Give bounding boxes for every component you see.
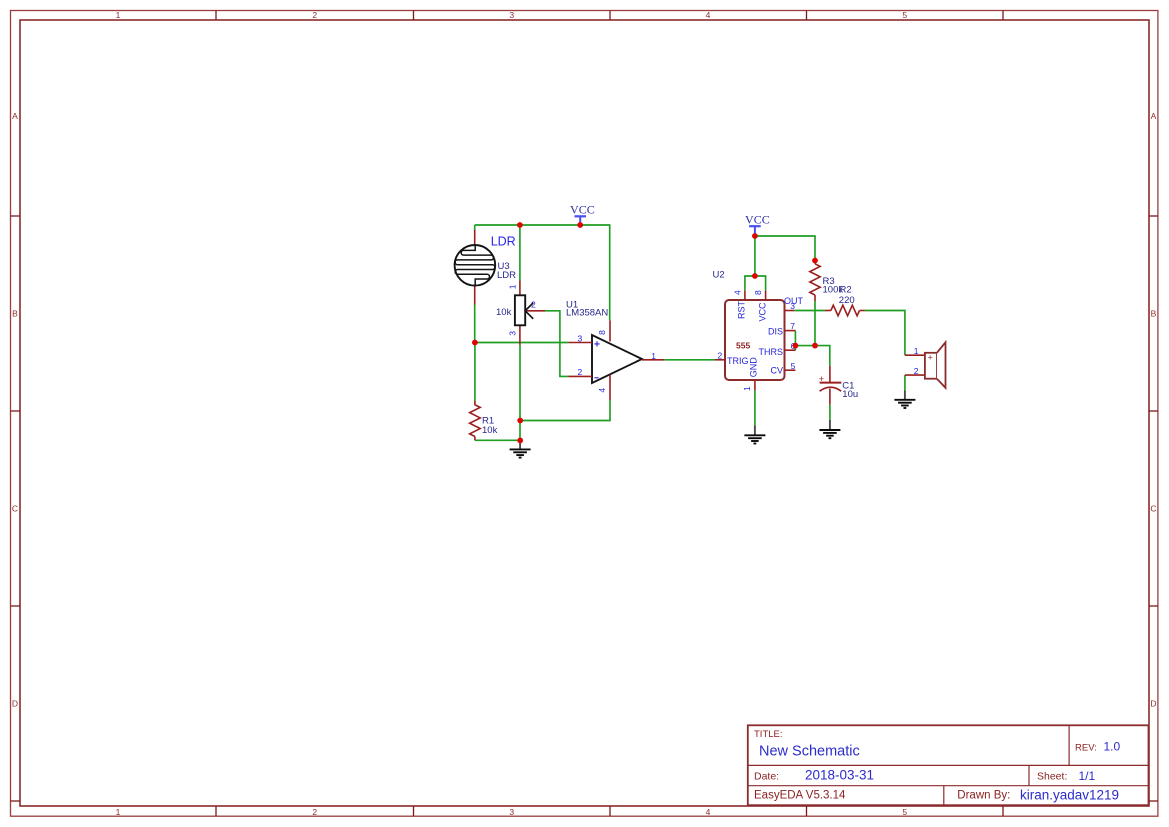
op-amp U1 triangle: [592, 335, 642, 383]
frame ruler ticks top: [216, 11, 1003, 21]
VCC flag 1 stem: [579, 216, 581, 225]
svg-text:VCC: VCC: [570, 202, 595, 216]
svg-text:1.0: 1.0: [1104, 740, 1121, 754]
svg-text:4: 4: [706, 807, 711, 817]
svg-text:B: B: [12, 309, 18, 319]
wire junction A down to R1: [474, 343, 476, 402]
frame ruler letters left: [12, 111, 18, 709]
op-amp U1 pin4: [609, 375, 611, 401]
wire pot top branch: [519, 225, 521, 281]
svg-text:LDR: LDR: [497, 270, 516, 281]
VCC flag 2 bar: [749, 225, 761, 227]
svg-text:TITLE:: TITLE:: [754, 729, 783, 740]
junction dot 555 top: [752, 273, 758, 279]
resistor R2 right stub: [860, 310, 865, 312]
op-amp U1 plus mark: [594, 341, 599, 346]
op-amp U1 pin8: [609, 320, 611, 341]
svg-text:1: 1: [651, 351, 656, 361]
speaker horn: [937, 342, 946, 388]
ground flag under speaker: [894, 400, 915, 408]
wire R1 bottom to ground junction: [475, 439, 520, 441]
svg-text:Drawn By:: Drawn By:: [957, 790, 1010, 802]
frame ruler numbers top: [116, 10, 908, 20]
frame ruler letters right: [1150, 111, 1156, 709]
wire pot wiper to op-amp pin2: [545, 311, 568, 377]
VCC flag 1 bar: [575, 215, 587, 217]
resistor R3 zigzag: [810, 264, 820, 295]
svg-text:5: 5: [902, 807, 907, 817]
junction dot top wire at VCC1: [577, 222, 583, 228]
op-amp U1 pin2: [568, 375, 592, 377]
ground flag under 555: [744, 435, 765, 443]
svg-text:3: 3: [509, 807, 514, 817]
potentiometer RP wiper arrow: [525, 303, 533, 319]
svg-text:10k: 10k: [496, 307, 512, 318]
junction dot R3 top: [812, 258, 818, 264]
555 U2 pin6: [785, 349, 796, 351]
svg-text:C: C: [1150, 504, 1156, 514]
CIRCUIT: [455, 202, 946, 457]
title block Sheet divider: [1028, 765, 1030, 785]
svg-text:OUT: OUT: [784, 296, 804, 306]
svg-text:B: B: [1151, 309, 1157, 319]
svg-text:2: 2: [914, 366, 919, 376]
svg-text:555: 555: [736, 341, 750, 351]
ground flag under speaker stub: [904, 390, 906, 400]
resistor R2 zigzag: [831, 305, 860, 316]
555 U2 pin4: [744, 290, 746, 300]
svg-text:C: C: [12, 504, 18, 514]
speaker pin1: [905, 354, 925, 356]
wire LDR bottom to junction A: [474, 305, 476, 343]
VCC flag 2 stem: [754, 226, 756, 236]
svg-text:Sheet:: Sheet:: [1037, 771, 1067, 783]
wire DIS to THRS junction: [794, 331, 796, 351]
resistor R1 zigzag: [470, 401, 481, 437]
svg-text:5: 5: [902, 10, 907, 20]
svg-text:REV:: REV:: [1075, 742, 1097, 753]
svg-text:4: 4: [597, 388, 607, 393]
svg-text:8: 8: [597, 330, 607, 335]
wire VCC2 down to 555 top: [754, 236, 756, 276]
ground flag under R1 stub: [519, 440, 521, 449]
svg-text:A: A: [1151, 111, 1157, 121]
title block row divider 1: [748, 764, 1149, 766]
svg-text:U2: U2: [713, 269, 725, 280]
ground flag under R1: [510, 449, 531, 457]
LDR U3 serpentine: [455, 245, 495, 285]
svg-text:1: 1: [914, 346, 919, 356]
frame ruler ticks left: [11, 216, 21, 801]
svg-text:RST: RST: [736, 300, 746, 319]
svg-text:DIS: DIS: [768, 327, 783, 337]
op-amp U1 pin1: [642, 359, 664, 361]
svg-text:3: 3: [507, 331, 517, 336]
svg-text:4: 4: [706, 10, 711, 20]
svg-text:10k: 10k: [482, 425, 498, 436]
potentiometer RP body: [515, 295, 525, 325]
wire LDR top stub: [474, 225, 476, 230]
svg-text:EasyEDA V5.3.14: EasyEDA V5.3.14: [754, 790, 846, 802]
svg-text:Date:: Date:: [754, 771, 779, 783]
svg-text:D: D: [1150, 699, 1156, 709]
555 U2 pin2: [715, 359, 725, 361]
junction dot pin4 net: [517, 418, 523, 424]
wire VCC2 to R3 top: [755, 236, 815, 261]
svg-text:CV: CV: [770, 366, 783, 376]
svg-text:2: 2: [312, 10, 317, 20]
svg-text:1: 1: [507, 284, 517, 289]
svg-text:4: 4: [732, 290, 742, 295]
svg-text:kiran.yadav1219: kiran.yadav1219: [1020, 787, 1119, 802]
svg-text:3: 3: [509, 10, 514, 20]
svg-text:LDR: LDR: [491, 235, 516, 249]
555 U2 pin7: [785, 330, 796, 332]
555 U2 pin3: [785, 310, 795, 312]
svg-text:7: 7: [790, 321, 795, 331]
svg-text:VCC: VCC: [757, 302, 767, 322]
capacitor C1 top pin: [829, 366, 831, 382]
svg-text:8: 8: [753, 290, 763, 295]
resistor R3 top stub: [814, 261, 816, 264]
svg-text:220: 220: [839, 295, 855, 306]
555 U2 pin5: [785, 369, 796, 371]
wire C1 bottom: [829, 404, 831, 420]
wire junction A to op-amp pin3: [475, 342, 568, 344]
title block DrawnBy divider: [943, 786, 945, 806]
ground flag under 555 stub: [754, 425, 756, 435]
op-amp U1 minus mark: [594, 377, 598, 379]
resistor R3 bottom stub: [814, 295, 816, 301]
svg-text:2: 2: [718, 351, 723, 361]
potentiometer RP pin2 wiper: [525, 310, 545, 312]
wire op-amp out to 555 TRIG: [664, 359, 715, 361]
junction dot node A: [472, 340, 478, 346]
capacitor C1 top plate: [820, 382, 842, 384]
junction dot ground net left: [517, 438, 523, 444]
svg-text:+: +: [928, 352, 933, 362]
svg-text:GND: GND: [749, 357, 759, 378]
resistor R2 left stub: [825, 310, 831, 312]
svg-text:New Schematic: New Schematic: [759, 744, 860, 760]
svg-text:10u: 10u: [842, 389, 858, 400]
frame ruler numbers bottom: [116, 807, 908, 817]
svg-text:2: 2: [312, 807, 317, 817]
junction dot VCC2: [752, 233, 758, 239]
svg-text:1/1: 1/1: [1079, 769, 1096, 783]
svg-text:A: A: [12, 111, 18, 121]
wire 555 OUT to R2: [794, 310, 825, 312]
wire op-amp pin4 net: [520, 400, 610, 421]
svg-text:3: 3: [578, 333, 583, 343]
svg-text:1: 1: [116, 10, 121, 20]
wire R2 to speaker pin1: [865, 311, 905, 356]
wire THRS junction to C1 top: [795, 346, 829, 366]
capacitor C1 bottom plate arc: [820, 387, 842, 391]
svg-text:2: 2: [578, 367, 583, 377]
svg-text:2018-03-31: 2018-03-31: [805, 768, 874, 783]
op-amp U1 pin3: [568, 342, 592, 344]
555 U2 body: [725, 300, 785, 380]
wire 555 pins 4-8 bridge: [745, 276, 766, 290]
ground flag under C1 stub: [829, 420, 831, 430]
title block row divider 2: [748, 785, 1149, 787]
555 U2 pin8: [765, 290, 767, 300]
svg-text:THRS: THRS: [759, 347, 784, 357]
junction dot R3 bottom: [812, 343, 818, 349]
potentiometer RP pin1: [519, 281, 521, 296]
svg-text:2: 2: [531, 300, 536, 310]
svg-text:TRIG: TRIG: [727, 356, 749, 366]
wire pot bottom down to ground junction: [519, 345, 521, 441]
speaker body: [925, 353, 937, 379]
frame ruler ticks bottom: [216, 806, 1003, 816]
wire R3 bottom to THRS net: [814, 301, 816, 346]
wire speaker pin2 down: [904, 375, 906, 390]
555 U2 pin1: [754, 380, 756, 390]
LDR U3 pin top: [474, 230, 476, 245]
svg-text:VCC: VCC: [745, 212, 770, 226]
speaker pin2: [905, 374, 925, 376]
potentiometer RP pin3: [519, 325, 521, 345]
wire top net VCC horizontal + right drop to op-amp pin8: [475, 225, 610, 320]
svg-text:1: 1: [742, 386, 752, 391]
capacitor C1 bottom pin: [829, 389, 831, 405]
LDR U3 pin bottom: [474, 286, 476, 305]
svg-text:LM358AN: LM358AN: [566, 307, 608, 318]
junction dot THRS: [793, 343, 799, 349]
LDR U3 circle: [455, 245, 496, 286]
title block box: [748, 725, 1149, 805]
title block REV divider: [1068, 725, 1070, 765]
junction dot top wire at pot: [517, 222, 523, 228]
svg-text:1: 1: [116, 807, 121, 817]
svg-text:D: D: [12, 699, 18, 709]
frame ruler ticks right: [1149, 216, 1158, 801]
svg-text:5: 5: [791, 361, 796, 371]
svg-text:+: +: [819, 374, 824, 384]
wire 555 GND down: [754, 390, 756, 425]
resistor R1 bottom stub: [474, 437, 476, 441]
ground flag under C1: [819, 430, 840, 438]
